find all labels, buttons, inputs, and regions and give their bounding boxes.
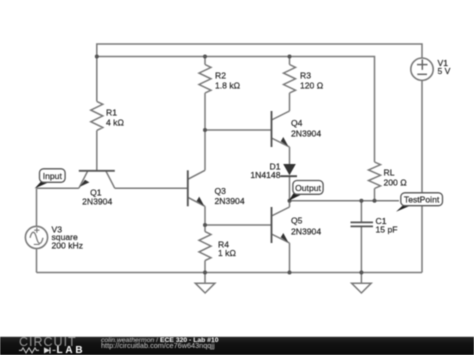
svg-text:120 Ω: 120 Ω — [300, 80, 324, 90]
svg-text:1 kΩ: 1 kΩ — [218, 248, 236, 258]
svg-text:2N3904: 2N3904 — [215, 196, 245, 206]
svg-text:LAB: LAB — [57, 345, 86, 355]
svg-text:200 Ω: 200 Ω — [384, 178, 408, 188]
svg-text:2N3904: 2N3904 — [82, 197, 112, 207]
svg-text:Output: Output — [295, 183, 321, 193]
svg-text:Q3: Q3 — [215, 186, 227, 196]
svg-text:200 kHz: 200 kHz — [52, 241, 84, 251]
svg-text:Q4: Q4 — [291, 118, 303, 128]
svg-text:5 V: 5 V — [438, 66, 451, 76]
svg-text:R3: R3 — [300, 71, 311, 81]
svg-text:1.8 kΩ: 1.8 kΩ — [215, 80, 241, 90]
svg-text:TestPoint: TestPoint — [404, 195, 440, 205]
svg-text:R2: R2 — [215, 71, 226, 81]
svg-text:R1: R1 — [106, 108, 117, 118]
svg-text:15 pF: 15 pF — [376, 225, 398, 235]
svg-text:2N3904: 2N3904 — [291, 226, 321, 236]
svg-text:RL: RL — [384, 168, 395, 178]
svg-text:Q5: Q5 — [291, 216, 303, 226]
svg-text:4 kΩ: 4 kΩ — [106, 118, 124, 128]
svg-text:Input: Input — [43, 171, 63, 181]
svg-text:2N3904: 2N3904 — [291, 129, 321, 139]
svg-text:http://circuitlab.com/ce76w643: http://circuitlab.com/ce76w643nqqjj — [101, 341, 215, 350]
svg-text:1N4148: 1N4148 — [250, 170, 280, 180]
